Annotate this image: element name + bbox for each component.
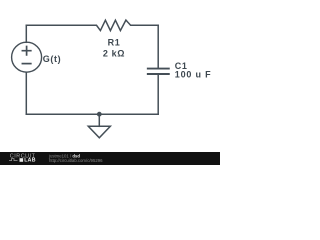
svg-text:http://circuitlab.com/c/95296: http://circuitlab.com/c/95296 xyxy=(49,158,103,163)
svg-text:G(t): G(t) xyxy=(43,54,61,64)
svg-text:R1: R1 xyxy=(108,37,121,47)
svg-text:100 u F: 100 u F xyxy=(175,70,212,80)
svg-text:LAB: LAB xyxy=(24,158,36,164)
svg-text:2 kΩ: 2 kΩ xyxy=(103,49,125,59)
